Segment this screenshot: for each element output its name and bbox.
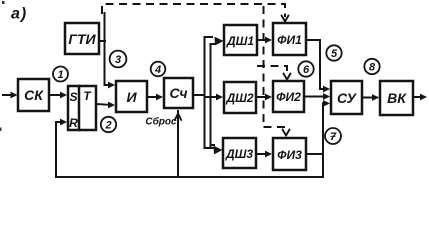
svg-text:Сч: Сч bbox=[169, 85, 187, 101]
svg-text:Сброс: Сброс bbox=[145, 116, 177, 128]
svg-text:И: И bbox=[126, 89, 137, 105]
svg-text:ДШ1: ДШ1 bbox=[226, 34, 254, 48]
svg-text:5: 5 bbox=[331, 48, 338, 60]
svg-text:ФИ1: ФИ1 bbox=[277, 33, 302, 47]
svg-text:ГТИ: ГТИ bbox=[68, 31, 96, 47]
svg-text:ДШ3: ДШ3 bbox=[225, 147, 253, 161]
svg-text:а): а) bbox=[11, 6, 27, 23]
svg-text:2: 2 bbox=[104, 120, 111, 132]
svg-text:ФИ3: ФИ3 bbox=[277, 148, 302, 162]
svg-text:7: 7 bbox=[330, 131, 337, 143]
svg-text:ДШ2: ДШ2 bbox=[225, 91, 253, 105]
svg-text:СК: СК bbox=[24, 87, 44, 103]
svg-text:3: 3 bbox=[115, 54, 121, 66]
svg-text:СУ: СУ bbox=[337, 90, 358, 106]
svg-text:S: S bbox=[69, 90, 77, 104]
svg-text:6: 6 bbox=[303, 64, 310, 76]
svg-text:1: 1 bbox=[57, 69, 63, 81]
svg-text:R: R bbox=[69, 116, 78, 130]
svg-text:8: 8 bbox=[369, 62, 376, 74]
svg-text:ФИ2: ФИ2 bbox=[276, 90, 301, 104]
svg-text:ВК: ВК bbox=[387, 90, 407, 106]
svg-text:4: 4 bbox=[154, 64, 161, 76]
